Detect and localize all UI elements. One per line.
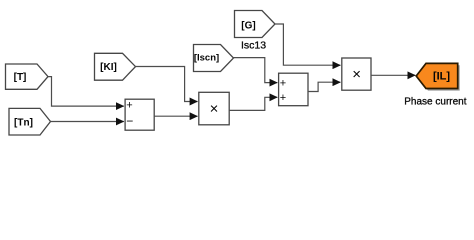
wire [T] to Sum1 input 1: [48, 77, 124, 107]
svg-text:+: +: [280, 77, 286, 89]
wire Sum2 to Product2 input 2: [308, 82, 340, 91]
svg-text:Phase current: Phase current: [404, 97, 466, 108]
wire [Tn] to Sum1 input 2: [51, 121, 124, 123]
svg-text:+: +: [280, 92, 286, 104]
sum block Sum1 (+ -): [125, 99, 154, 130]
svg-text:[T]: [T]: [14, 72, 27, 83]
svg-text:+: +: [126, 100, 132, 112]
wire Sum1 to Product1 input 2: [154, 115, 197, 117]
product block Product1 (x): [199, 92, 229, 125]
From tag [Tn]: [9, 108, 51, 135]
svg-text:×: ×: [352, 66, 361, 83]
svg-text:[Iscn]: [Iscn]: [194, 53, 219, 64]
From tag [G]: [235, 11, 276, 38]
wire Product2 to Goto [IL]: [371, 74, 415, 76]
svg-text:[Tn]: [Tn]: [14, 117, 33, 128]
svg-text:−: −: [126, 114, 133, 128]
product block Product2 (x): [342, 58, 371, 90]
svg-text:×: ×: [210, 101, 219, 118]
From tag [Iscn]: [194, 45, 234, 72]
wire [G] to Product2 input 1: [275, 24, 340, 65]
sum block Sum2 (+ +): [279, 73, 308, 106]
svg-text:[KI]: [KI]: [100, 62, 117, 73]
svg-text:[IL]: [IL]: [433, 71, 450, 83]
goto tag [IL] shadow: [418, 65, 460, 90]
wire [KI] to Product1 input 1: [136, 67, 198, 102]
From tag [T]: [6, 64, 49, 89]
wire [Iscn] to Sum2 input 1: [234, 58, 278, 83]
svg-text:Isc13: Isc13: [241, 39, 266, 51]
svg-text:[G]: [G]: [241, 21, 255, 32]
goto tag [IL] (orange): [416, 63, 458, 88]
wire Product1 to Sum2 input 2: [229, 97, 277, 110]
From tag [KI]: [95, 53, 136, 80]
